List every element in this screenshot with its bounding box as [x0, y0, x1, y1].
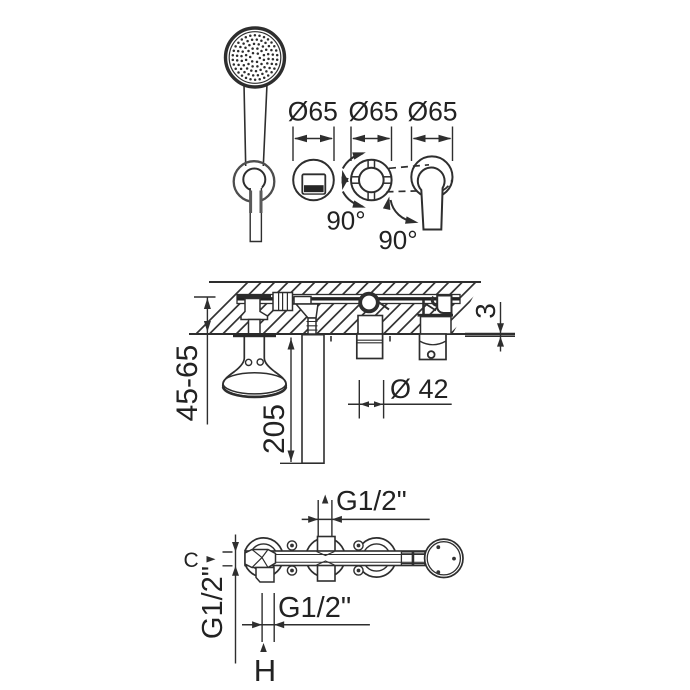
dimension 45-65: [194, 297, 216, 425]
hand shower lower grip: [250, 187, 262, 242]
bell mounting bar: [233, 333, 276, 337]
plan view left flange circle: [244, 538, 283, 577]
left bottom port block: [256, 568, 274, 583]
svg-text:45-65: 45-65: [171, 345, 204, 422]
holder ring: [243, 169, 265, 191]
svg-text:90°: 90°: [326, 206, 365, 236]
hand shower wall support bell: [223, 335, 286, 397]
hand shower handle: [244, 84, 267, 166]
wall rose 2 rotation ring: [351, 160, 392, 201]
dimension D42: [359, 380, 383, 419]
dimension 3: [465, 334, 515, 337]
mixer valve body in wall: [358, 294, 389, 334]
wall top line: [209, 281, 481, 283]
shower holder bracket: [234, 161, 275, 202]
right union and nipple: [401, 552, 424, 566]
svg-text:H: H: [254, 653, 276, 688]
center union facets: [317, 552, 335, 566]
svg-text:3: 3: [470, 303, 501, 319]
svg-text:205: 205: [258, 404, 291, 454]
svg-text:Ø65: Ø65: [407, 97, 457, 127]
dimension D65 middle rose: [348, 97, 398, 162]
svg-text:G1/2": G1/2": [197, 566, 229, 639]
wall rose 3 with lever: [411, 156, 452, 229]
main horizontal body pipe: [232, 551, 425, 566]
end plate screws: [436, 545, 456, 574]
trim ticks below wall: [331, 336, 390, 342]
plan view center circle: [306, 538, 345, 577]
center fitting top port block: [318, 537, 336, 552]
svg-text:G1/2": G1/2": [278, 592, 351, 624]
screw bosses: [287, 541, 363, 575]
arc arrow 90 lever: [391, 200, 414, 222]
wall rose 1 flange with window: [293, 160, 334, 201]
left long extension line: [235, 535, 237, 664]
svg-text:Ø65: Ø65: [348, 97, 398, 127]
dimension D65 left rose: [288, 97, 338, 162]
plan view right flange circle: [357, 538, 396, 577]
drop pipe wall fitting: [294, 297, 318, 335]
rail union nut: [273, 293, 293, 311]
svg-text:G1/2": G1/2": [336, 485, 407, 516]
rotation arrows around ring: [343, 153, 363, 206]
svg-text:Ø 42: Ø 42: [390, 374, 449, 404]
hand shower head: [226, 28, 285, 87]
dimension D65 right rose: [407, 97, 457, 162]
mounting rail: [237, 295, 460, 304]
drop pipe 205: [302, 335, 324, 464]
dashed lever rotated position: [387, 165, 453, 192]
end wall plate circle: [425, 539, 463, 577]
dimension H and G1/2 bottom: [262, 593, 274, 642]
dimension 205: [280, 338, 302, 464]
svg-text:Ø65: Ø65: [288, 97, 338, 127]
right outlet fitting in wall: [418, 296, 454, 335]
center fitting bottom port block: [318, 565, 336, 581]
left hex nut: [245, 550, 276, 568]
mixer housing below wall: [357, 334, 383, 359]
left elbow fitting (hand shower outlet): [238, 295, 272, 334]
svg-text:90°: 90°: [378, 225, 417, 255]
wall bottom line: [189, 333, 515, 335]
dimension G1/2 top: [322, 495, 329, 504]
